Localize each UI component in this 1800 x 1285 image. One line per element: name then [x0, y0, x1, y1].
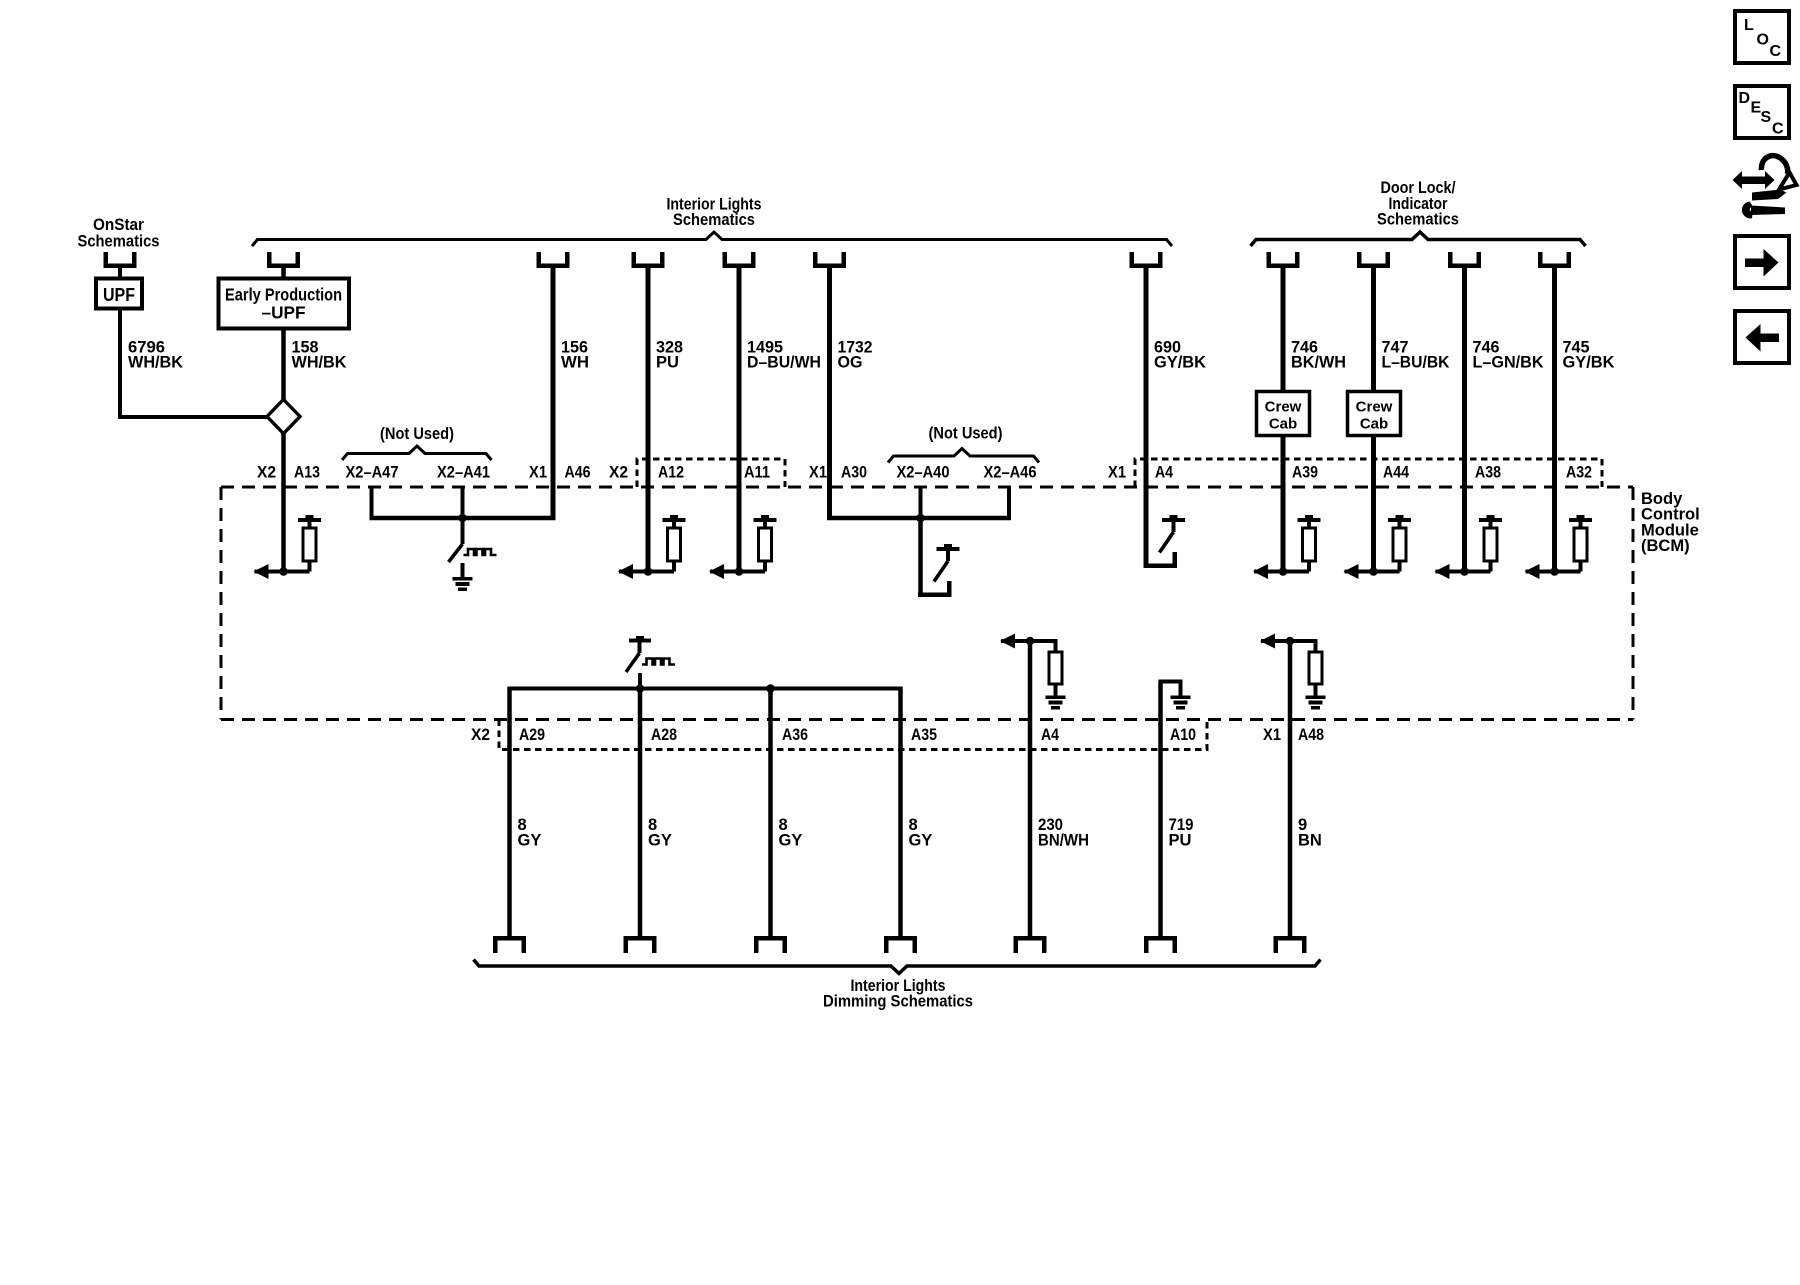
svg-text:BK/WH: BK/WH — [1291, 354, 1346, 372]
svg-text:X1: X1 — [809, 463, 827, 482]
connector: circuit 328 to Interior Lights schematics — [632, 252, 665, 268]
wire: circuit 328 PU — [646, 267, 651, 572]
connector: to OnStar schematics — [104, 252, 137, 268]
svg-text:X2: X2 — [257, 463, 276, 482]
wire: circuit 745 GY/BK — [1552, 267, 1557, 572]
wire: circuit 158 WH/BK to splice — [281, 328, 286, 401]
junction: X2-A40 jumper — [916, 514, 925, 523]
pin label: A29 — [519, 725, 545, 744]
box: UPF — [96, 279, 142, 309]
junction: X2-A41 jumper — [458, 514, 467, 523]
wire: circuit 746 BK/WH upper — [1281, 267, 1286, 392]
input A44: internal output arrow, junction and pull-up resistor to B+ terminal — [1344, 515, 1412, 579]
box: Crew Cab (circuit 746) — [1257, 392, 1310, 436]
pin label: A48 — [1298, 725, 1324, 744]
svg-text:(Not Used): (Not Used) — [380, 424, 454, 443]
brace: (Not Used) pins X2-A47/X2-A41 — [342, 446, 492, 460]
connector outline: X2 dotted box around A12/A11 — [637, 459, 785, 487]
connector: circuit 8 (A36) to dimming schematics — [754, 936, 787, 953]
input A11: internal output arrow, junction and pull-up resistor to B+ terminal — [709, 515, 777, 579]
pin label: A10 — [1170, 725, 1196, 744]
connector: circuit 8 (A29) to dimming schematics — [493, 936, 526, 953]
ground: internal at A10 — [1159, 680, 1191, 710]
brace: Interior Lights Schematics group — [252, 232, 1172, 246]
svg-text:X2–A41: X2–A41 — [437, 463, 490, 482]
svg-text:GY: GY — [779, 832, 803, 850]
wire: X2-A41 stub — [461, 487, 465, 520]
label: circuit 8 GY (A35) — [909, 816, 933, 850]
wire: X2-A40 stub — [919, 487, 923, 520]
wire: Early Production connector stub — [281, 267, 286, 279]
svg-text:GY: GY — [518, 832, 542, 850]
svg-text:A4: A4 — [1155, 463, 1173, 482]
input A32: internal output arrow, junction and pull-up resistor to B+ terminal — [1525, 515, 1593, 579]
svg-text:BN: BN — [1298, 832, 1322, 850]
svg-text:Cab: Cab — [1269, 416, 1297, 433]
svg-text:S: S — [1761, 109, 1772, 126]
svg-text:Crew: Crew — [1356, 399, 1393, 416]
switch: BCM internal at X2-A40: internal switch contact — [918, 544, 960, 597]
label: circuit 719 PU — [1169, 816, 1194, 850]
label: (Not Used) left — [380, 424, 454, 443]
svg-text:X1: X1 — [529, 463, 547, 482]
brace: Door Lock/Indicator Schematics group — [1251, 232, 1586, 246]
wire: OnStar connector to UPF box — [118, 267, 122, 279]
connector: circuit 745 to Door Lock schematics — [1538, 252, 1571, 268]
input A12: internal output arrow, junction and pull-up resistor to B+ terminal — [618, 515, 686, 579]
pin label: A35 — [911, 725, 937, 744]
wire: circuit 1732 OG — [827, 267, 832, 520]
box: Early Production -UPF — [219, 279, 350, 329]
junction: bus at A36 — [766, 684, 775, 693]
pin label: X2-A46 — [984, 463, 1037, 482]
connector: circuit 156 to Interior Lights schematics — [537, 252, 570, 268]
svg-text:A32: A32 — [1566, 463, 1592, 482]
svg-text:A13: A13 — [294, 463, 320, 482]
wire: X2-A40 to switch — [918, 518, 923, 597]
svg-text:X2–A40: X2–A40 — [897, 463, 950, 482]
connector outline: X1 dotted box around A4..A32 — [1135, 459, 1602, 487]
pin label: A13 — [294, 463, 320, 482]
svg-text:L–BU/BK: L–BU/BK — [1382, 354, 1450, 372]
pin label: X2-A40 — [897, 463, 950, 482]
label: circuit 230 BN/WH — [1038, 816, 1089, 850]
svg-text:Schematics: Schematics — [78, 232, 160, 251]
svg-text:L: L — [1744, 17, 1754, 34]
wire: pin A4 output — [1028, 641, 1033, 938]
svg-text:PU: PU — [1169, 832, 1192, 850]
brace: Interior Lights Dimming Schematics group — [474, 960, 1321, 974]
wire: circuit 1495 D-BU/WH — [737, 267, 742, 572]
pin label: A44 — [1383, 463, 1409, 482]
wire: pin A10 output — [1158, 682, 1163, 939]
label: Interior Lights Schematics — [667, 195, 762, 230]
connector: circuit 9 to dimming schematics — [1274, 936, 1307, 953]
pin label: X2-A47 — [346, 463, 399, 482]
svg-text:(Not Used): (Not Used) — [929, 424, 1003, 443]
module: Body Control Module (BCM) dashed outline — [221, 487, 1633, 720]
label: circuit 1732 OG — [838, 339, 873, 372]
connector: circuit 746 L-GN to Door Lock schematics — [1448, 252, 1481, 268]
svg-text:O: O — [1757, 32, 1769, 49]
connector: circuit 8 (A35) to dimming schematics — [884, 936, 917, 953]
svg-text:BN/WH: BN/WH — [1038, 832, 1089, 850]
output A48: internal output arrow, junction and pull-down resistor to ground — [1260, 634, 1326, 710]
connector: circuit 690 to Interior Lights schematics — [1130, 252, 1163, 268]
svg-text:A28: A28 — [651, 725, 677, 744]
pin label: A30 — [841, 463, 867, 482]
wire: jumper pin A30 to X2-A40/X2-A46 — [827, 516, 1011, 521]
wire: pin A48 output — [1288, 641, 1293, 938]
label: circuit 9 BN — [1298, 816, 1322, 850]
connector outline: X2 dotted box around A29..A10 — [499, 720, 1207, 750]
svg-text:L–GN/BK: L–GN/BK — [1473, 354, 1544, 372]
svg-text:UPF: UPF — [103, 285, 135, 305]
pin label: X2 (A12) — [609, 463, 628, 482]
label: circuit 747 L-BU/BK — [1382, 339, 1450, 372]
svg-text:A12: A12 — [658, 463, 684, 482]
brace: (Not Used) pins X2-A40/X2-A46 — [888, 449, 1039, 463]
svg-text:Schematics: Schematics — [673, 210, 755, 229]
svg-text:A48: A48 — [1298, 725, 1324, 744]
pin label: X2 — [257, 463, 276, 482]
svg-text:Schematics: Schematics — [1377, 210, 1459, 229]
svg-text:A10: A10 — [1170, 725, 1196, 744]
wire: internal dimming bus A29-A35 — [508, 687, 903, 691]
svg-text:GY/BK: GY/BK — [1154, 354, 1206, 372]
switch: BCM internal at X1-A4: internal switch contact — [1144, 515, 1186, 568]
wire: circuit 156 WH — [551, 267, 556, 520]
label: circuit 1495 D-BU/WH — [747, 339, 821, 372]
label: OnStar Schematics — [78, 215, 160, 251]
svg-text:WH/BK: WH/BK — [292, 354, 347, 372]
svg-text:GY/BK: GY/BK — [1563, 354, 1615, 372]
svg-text:D: D — [1739, 90, 1751, 107]
label: circuit 746 BK/WH — [1291, 339, 1346, 372]
label: circuit 745 GY/BK — [1563, 339, 1615, 372]
svg-text:A29: A29 — [519, 725, 545, 744]
label: circuit 690 GY/BK — [1154, 339, 1206, 372]
pin label: X1 (bottom) — [1263, 725, 1281, 744]
svg-text:(BCM): (BCM) — [1641, 537, 1690, 555]
wire: pin A28 output — [638, 689, 643, 939]
svg-text:A46: A46 — [565, 463, 591, 482]
svg-text:X1: X1 — [1108, 463, 1126, 482]
svg-text:GY: GY — [648, 832, 672, 850]
wire: circuit 747 L-BU/BK upper — [1371, 267, 1376, 392]
pin label: A12 — [658, 463, 684, 482]
pin label: A28 — [651, 725, 677, 744]
icon: back arrow box — [1735, 311, 1789, 363]
label: circuit 8 GY (A36) — [779, 816, 803, 850]
box: Crew Cab (circuit 747) — [1348, 392, 1401, 436]
output A4 (courtesy lamp): internal output arrow, junction and pull-down resistor to ground — [1000, 634, 1066, 710]
connector: circuit 8 (A28) to dimming schematics — [624, 936, 657, 953]
icon: forward arrow box — [1735, 236, 1789, 288]
pin label: A4 (bottom) — [1041, 725, 1059, 744]
label: circuit 158 WH/BK — [292, 339, 347, 372]
switch: dimming feed at A28: internal dimming switch (with detent) — [626, 636, 675, 689]
svg-text:OG: OG — [838, 354, 863, 372]
svg-text:Cab: Cab — [1360, 416, 1388, 433]
svg-text:A11: A11 — [744, 463, 770, 482]
icon: schematic cross-reference (arrows and wrench) — [1733, 156, 1797, 219]
svg-text:Early Production: Early Production — [225, 285, 342, 305]
connector: circuit 746 to Door Lock schematics — [1267, 252, 1300, 268]
wire: circuit 746 BK/WH lower — [1281, 435, 1286, 572]
pin label: A38 — [1475, 463, 1501, 482]
svg-text:D–BU/WH: D–BU/WH — [747, 354, 821, 372]
svg-text:X2: X2 — [471, 725, 490, 744]
svg-text:–UPF: –UPF — [262, 303, 306, 323]
svg-text:C: C — [1772, 121, 1784, 138]
label: circuit 8 GY (A29) — [518, 816, 542, 850]
svg-text:C: C — [1770, 43, 1782, 60]
pin label: A39 — [1292, 463, 1318, 482]
wire: pin A29 output — [507, 687, 512, 939]
svg-text:X2–A46: X2–A46 — [984, 463, 1037, 482]
wire: circuit 746 L-GN/BK — [1462, 267, 1467, 572]
label: (Not Used) right — [929, 424, 1003, 443]
svg-text:A36: A36 — [782, 725, 808, 744]
switch: BCM internal at X2-A41: internal switch to ground (with detent) — [449, 518, 497, 591]
label: circuit 156 WH — [561, 339, 589, 372]
input A13: internal output arrow, junction and pull-up resistor to B+ terminal — [254, 515, 322, 579]
pin label: A4 — [1155, 463, 1173, 482]
svg-text:A44: A44 — [1383, 463, 1409, 482]
connector: circuit 719 to dimming schematics — [1144, 936, 1177, 953]
pin label: X1 (A4) — [1108, 463, 1126, 482]
label: Interior Lights Dimming Schematics — [823, 976, 973, 1011]
svg-text:A35: A35 — [911, 725, 937, 744]
pin label: X2 (bottom) — [471, 725, 490, 744]
pin label: X1 — [529, 463, 547, 482]
pin label: X2-A41 — [437, 463, 490, 482]
wire: jumper X2-A47/X2-A41 to pin A46 — [370, 516, 556, 521]
svg-text:X2: X2 — [609, 463, 628, 482]
wire: circuit 690 GY/BK — [1144, 267, 1149, 568]
label: Door Lock/Indicator Schematics — [1377, 178, 1459, 229]
wire: pin A36 output — [768, 689, 773, 939]
svg-text:Crew: Crew — [1265, 399, 1302, 416]
input A38: internal output arrow, junction and pull-up resistor to B+ terminal — [1435, 515, 1503, 579]
label: circuit 8 GY (A28) — [648, 816, 672, 850]
svg-text:Dimming Schematics: Dimming Schematics — [823, 992, 973, 1011]
svg-text:WH/BK: WH/BK — [128, 354, 183, 372]
svg-text:A4: A4 — [1041, 725, 1059, 744]
svg-text:A30: A30 — [841, 463, 867, 482]
svg-text:WH: WH — [561, 354, 589, 372]
label: circuit 328 PU — [656, 339, 683, 372]
svg-text:GY: GY — [909, 832, 933, 850]
svg-text:X2–A47: X2–A47 — [346, 463, 399, 482]
pin label: X1 (A30) — [809, 463, 827, 482]
svg-text:X1: X1 — [1263, 725, 1281, 744]
connector: circuit 1495 to Interior Lights schematics — [723, 252, 756, 268]
icon: LOC box — [1735, 11, 1789, 63]
junction: bus at A28 — [636, 684, 645, 693]
pin label: A11 — [744, 463, 770, 482]
label: Body Control Module (BCM) — [1641, 490, 1700, 555]
connector: circuit 747 to Door Lock schematics — [1357, 252, 1390, 268]
wire: circuit 6796 horizontal to splice — [118, 415, 269, 419]
connector: circuit 1732 to Interior Lights schematics — [813, 252, 846, 268]
pin label: A46 — [565, 463, 591, 482]
icon: DESC box — [1735, 86, 1789, 138]
wire: X2-A46 stub — [1007, 487, 1011, 520]
wire: pin A35 output — [898, 687, 903, 939]
svg-text:A38: A38 — [1475, 463, 1501, 482]
connector: to Early Production UPF — [267, 252, 300, 268]
pin label: A36 — [782, 725, 808, 744]
pin label: A32 — [1566, 463, 1592, 482]
wire: circuit 747 L-BU/BK lower — [1371, 435, 1376, 572]
wire: X2-A47 stub — [370, 487, 374, 520]
svg-text:A39: A39 — [1292, 463, 1318, 482]
label: circuit 746 L-GN/BK — [1473, 339, 1544, 372]
connector: circuit 230 to dimming schematics — [1014, 936, 1047, 953]
label: circuit 6796 WH/BK — [128, 339, 183, 372]
svg-text:PU: PU — [656, 354, 679, 372]
wire: circuit 6796 WH/BK vertical — [118, 308, 122, 419]
input A39: internal output arrow, junction and pull-up resistor to B+ terminal — [1253, 515, 1321, 579]
splice: circuits 6796/158 — [267, 400, 300, 434]
wire: splice to BCM pin X2-A13 — [281, 432, 286, 572]
